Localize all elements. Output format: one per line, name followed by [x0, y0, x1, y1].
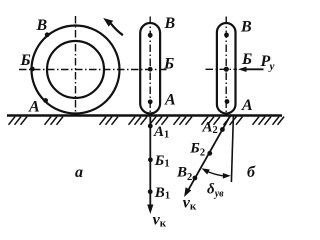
case b: wheel plane vertical reference line — [231, 115, 233, 182]
slip angle arc right arrow head — [223, 173, 231, 179]
ground hatch group 3 — [100, 117, 119, 125]
case a: point A1 dot — [148, 124, 153, 129]
ground hatch group 5 — [150, 117, 169, 125]
right wheel point A dot — [225, 99, 230, 104]
wheel front view: inner rim circle — [47, 41, 104, 98]
ground hatch group 9 — [253, 117, 272, 125]
case b: point A2 dot — [220, 127, 225, 132]
svg-text:а: а — [75, 164, 83, 181]
middle wheel point Б dot — [148, 67, 153, 72]
point B dot on rim — [45, 32, 50, 37]
slip angle arc — [208, 172, 223, 176]
wheel front view: vertical axis dash-dot line — [75, 16, 77, 113]
rotation arrow head — [103, 18, 113, 27]
wheel front view: outer rim circle — [32, 26, 120, 114]
point Б dot on rim — [30, 67, 35, 72]
ground hatch group 2 — [45, 117, 64, 125]
case b: slip velocity slanted line — [189, 114, 231, 189]
right wheel side view: vertical dash-dot centerline — [225, 17, 227, 115]
right wheel side view: horizontal dash-dot axis — [206, 68, 238, 70]
svg-text:Б: Б — [20, 52, 31, 69]
wheel front view: horizontal axis dash-dot line — [19, 69, 168, 71]
lateral force arrow P_y head — [238, 67, 247, 72]
ground hatch group 8 — [224, 116, 243, 125]
svg-text:В: В — [164, 15, 176, 32]
slip angle arc left arrow head — [202, 168, 210, 174]
svg-text:у: у — [268, 61, 275, 73]
svg-text:А: А — [241, 97, 253, 114]
svg-text:Б: Б — [241, 51, 252, 68]
middle wheel point A dot — [148, 99, 153, 104]
svg-text:б: б — [247, 164, 256, 181]
case a: velocity arrow head — [147, 205, 153, 215]
right wheel point Б dot — [224, 67, 229, 72]
svg-text:А: А — [28, 99, 40, 116]
point A dot on rim — [43, 98, 48, 103]
middle wheel side view: tyre outline (stadium) — [140, 23, 160, 114]
ground hatch group 1 — [9, 117, 28, 125]
case a: point Б1 dot — [148, 157, 153, 162]
svg-text:В: В — [36, 17, 48, 34]
case b: point B2 dot — [193, 176, 198, 181]
right wheel side view: tyre outline (stadium) — [217, 23, 236, 114]
ground line — [7, 114, 282, 116]
ground hatch group 4 — [129, 117, 148, 125]
ground hatch group 7 — [202, 117, 221, 125]
right wheel point B dot — [224, 33, 229, 38]
case a: velocity line below ground — [149, 117, 151, 205]
middle wheel side view: vertical dash-dot centerline — [149, 17, 151, 115]
rotation arrow arc — [111, 24, 123, 36]
svg-text:В: В — [240, 19, 252, 36]
svg-text:А: А — [164, 92, 176, 109]
svg-text:Б: Б — [163, 56, 174, 73]
case b: slip velocity arrow head — [184, 187, 191, 197]
middle wheel point B dot — [148, 33, 153, 38]
ground hatch group 10 — [273, 117, 285, 125]
ground hatch group 6 — [174, 117, 193, 125]
case a: point B1 dot — [148, 189, 153, 194]
case b: point Б2 dot — [207, 151, 212, 156]
lateral force arrow P_y shaft — [246, 68, 264, 70]
